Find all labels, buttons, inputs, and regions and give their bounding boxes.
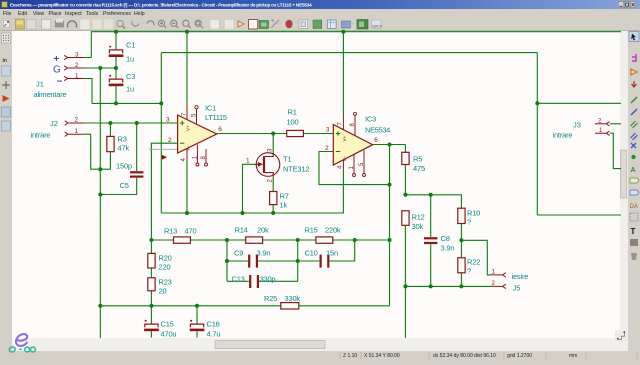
node C9 left <box>225 259 229 263</box>
capacitor C5 <box>130 171 143 178</box>
svg-text:1: 1 <box>75 128 79 135</box>
wire R13 R14 R15 row <box>151 239 389 241</box>
svg-text:J2: J2 <box>50 119 58 128</box>
svg-text:R12: R12 <box>412 213 425 222</box>
svg-text:R20: R20 <box>159 254 172 263</box>
watermark logo <box>9 334 36 353</box>
svg-text:?: ? <box>467 218 471 227</box>
wire V- row right <box>537 102 621 104</box>
node C8 top <box>429 193 433 197</box>
right toolbar <box>627 31 640 352</box>
wire V- riser <box>160 53 162 213</box>
svg-text:150p: 150p <box>116 162 132 171</box>
node V- bottom row <box>159 101 163 105</box>
resistor R15 <box>316 237 333 243</box>
svg-text:1u: 1u <box>126 85 134 94</box>
svg-text:3: 3 <box>166 117 170 124</box>
wire IC1 graphic gray stub <box>149 148 179 150</box>
wire V- drop to lower row <box>536 103 538 215</box>
svg-text:220: 220 <box>159 263 171 272</box>
node R12 bottom <box>403 284 407 288</box>
svg-text:2: 2 <box>325 145 329 152</box>
node IC3 output <box>388 143 392 147</box>
svg-text:R15: R15 <box>305 226 318 235</box>
node R25 left <box>98 304 102 308</box>
svg-text:4.7u: 4.7u <box>207 330 221 339</box>
svg-text:Eeschema — preamplificator cu: Eeschema — preamplificator cu corectie r… <box>10 2 312 7</box>
top toolbar <box>2 19 383 30</box>
svg-text:3: 3 <box>326 127 330 134</box>
wire IC3 output <box>373 144 406 146</box>
node C15 top <box>149 304 153 308</box>
wire R7 bottom <box>272 205 274 213</box>
capacitor C8 <box>424 237 437 244</box>
node C9 drop <box>225 238 229 242</box>
node C1 top <box>114 30 118 34</box>
resistor R14 <box>246 237 263 243</box>
canvas <box>12 31 620 338</box>
wire C13 row <box>227 280 298 282</box>
svg-text:R14: R14 <box>235 226 248 235</box>
svg-text:47k: 47k <box>118 144 130 153</box>
svg-text:C10: C10 <box>305 249 318 258</box>
wire node to J5 pin1 jog <box>461 240 490 275</box>
node riser mid <box>296 238 300 242</box>
svg-text:Tools: Tools <box>86 11 99 17</box>
svg-text:−: − <box>57 77 63 88</box>
title bar <box>0 0 640 9</box>
capacitor C3 <box>109 75 124 86</box>
left toolbar <box>0 31 12 352</box>
svg-text:T1: T1 <box>283 155 291 164</box>
wire R25 row <box>100 305 389 307</box>
wire T1 source to R7 <box>272 176 274 191</box>
svg-text:T: T <box>631 227 636 236</box>
svg-text:470: 470 <box>185 227 197 236</box>
wire R20 R23 middle <box>150 268 152 278</box>
svg-text:R22: R22 <box>467 258 480 267</box>
svg-text:Z 1.10: Z 1.10 <box>343 353 357 359</box>
resistor R10 <box>458 208 465 223</box>
svg-text:grid 1.2700: grid 1.2700 <box>507 353 532 359</box>
wire C16 column <box>196 306 198 338</box>
svg-text:15n: 15n <box>326 249 338 258</box>
svg-text:IC1: IC1 <box>205 104 216 113</box>
svg-text:NTE312: NTE312 <box>283 165 309 174</box>
wire J1 bottom row <box>92 102 161 104</box>
node feedback row <box>388 238 392 242</box>
svg-text:C5: C5 <box>120 181 129 190</box>
node IC3 V+ <box>341 30 345 34</box>
node T1 gate gnd <box>241 211 245 215</box>
node G row left <box>98 66 102 70</box>
node R7 gnd <box>271 211 275 215</box>
resistor R5 <box>402 152 409 164</box>
wire J3 pin2 <box>610 123 621 125</box>
wire R5 bottom <box>404 165 406 195</box>
wire J3 pin1 jog <box>610 133 621 168</box>
resistor R7 <box>270 192 277 205</box>
resistor R20 <box>148 253 155 268</box>
wire GND mid rail <box>161 170 343 214</box>
wire C10 row <box>298 240 355 261</box>
capacitor C15 <box>144 320 159 331</box>
svg-text:Inspect: Inspect <box>65 11 82 17</box>
svg-text:3.9n: 3.9n <box>257 249 271 258</box>
svg-text:C1: C1 <box>126 41 135 50</box>
svg-text:330k: 330k <box>285 294 301 303</box>
svg-text:3: 3 <box>75 52 79 59</box>
wire C8 column <box>430 195 432 287</box>
connector J3 <box>553 119 610 140</box>
svg-text:3.9n: 3.9n <box>441 244 455 253</box>
wire V+ rail top <box>91 32 621 58</box>
capacitor C10 <box>320 255 330 268</box>
svg-text:475: 475 <box>413 164 425 173</box>
wire C5 bottom <box>100 178 136 195</box>
svg-text:R1: R1 <box>288 108 297 117</box>
wire ground column from G row <box>99 68 101 338</box>
node T1 drain <box>271 132 275 136</box>
svg-text:220k: 220k <box>325 226 341 235</box>
svg-text:20k: 20k <box>257 226 269 235</box>
node C16 top <box>195 304 199 308</box>
svg-text:iesire: iesire <box>512 272 529 281</box>
svg-text:LT1115: LT1115 <box>205 113 227 122</box>
svg-text:BACK: BACK <box>373 25 383 29</box>
op-amp U IC1 LT1115 <box>178 105 217 167</box>
svg-text:V−: V− <box>186 145 191 151</box>
resistor R23 <box>148 278 155 291</box>
svg-text:File: File <box>3 11 11 17</box>
wire R10 bottom <box>460 224 462 241</box>
wire R3 bottom <box>100 152 110 170</box>
svg-text:20: 20 <box>159 287 167 296</box>
wire R20 top <box>150 240 152 253</box>
connector J5 <box>490 270 528 293</box>
wire IC3 pin7 supply <box>342 32 344 115</box>
svg-text:C3: C3 <box>126 72 135 81</box>
svg-text:+: + <box>54 54 60 65</box>
resistor R3 <box>107 136 114 151</box>
svg-text:R25: R25 <box>264 294 277 303</box>
resistor R22 <box>458 258 465 273</box>
wire T1 drain riser <box>272 134 274 154</box>
svg-text:1: 1 <box>246 158 250 165</box>
svg-text:IC3: IC3 <box>365 115 376 124</box>
node R3 bottom <box>98 167 102 171</box>
svg-text:6: 6 <box>374 137 378 144</box>
svg-text:R7: R7 <box>280 192 289 201</box>
capacitor C1 <box>109 46 124 57</box>
svg-text:1u: 1u <box>126 55 134 64</box>
svg-text:2: 2 <box>75 117 79 124</box>
status bar <box>0 351 640 360</box>
node R13 left <box>149 238 153 242</box>
svg-text:dx 52.34 dy 80.00 dist 96.10: dx 52.34 dy 80.00 dist 96.10 <box>433 353 496 359</box>
node IC1 pin4 gnd <box>185 211 189 215</box>
wire feedback vertical <box>389 145 391 306</box>
svg-text:V−: V− <box>342 155 347 161</box>
svg-text:C16: C16 <box>207 320 220 329</box>
resistor R25 <box>281 303 299 309</box>
capacitor C13 <box>249 275 259 288</box>
node C5 bottom <box>98 193 102 197</box>
no-connect arrow marker <box>162 155 167 160</box>
svg-text:Preferences: Preferences <box>103 11 131 17</box>
svg-text:mm: mm <box>569 353 577 359</box>
svg-text:intrare: intrare <box>553 130 573 139</box>
connector J1 <box>34 52 85 100</box>
node R5 R12 <box>403 193 407 197</box>
svg-text:C15: C15 <box>161 320 174 329</box>
wire J1 pin3 to rail <box>84 57 91 59</box>
wire IC1 pin4 to gnd rail <box>186 160 188 213</box>
node IC1 V+ <box>185 30 189 34</box>
svg-text:R13: R13 <box>164 227 177 236</box>
wire V- top rail <box>161 52 537 54</box>
svg-text:330p: 330p <box>260 275 276 284</box>
svg-text:NE5534: NE5534 <box>365 126 390 135</box>
svg-text:6: 6 <box>218 126 222 133</box>
svg-text:Place: Place <box>49 11 62 17</box>
svg-text:J5: J5 <box>513 284 521 293</box>
node R3 top <box>108 121 112 125</box>
node C10 riser top <box>353 238 357 242</box>
wire IC3 feedback loop <box>319 152 390 185</box>
node C8 bottom <box>429 284 433 288</box>
svg-text:J3: J3 <box>573 121 581 130</box>
node C9 right <box>296 259 300 263</box>
wire R3 top <box>109 123 111 136</box>
svg-text:R5: R5 <box>413 155 422 164</box>
svg-text:R23: R23 <box>159 278 172 287</box>
wire C3 column <box>115 68 117 103</box>
menu bar <box>3 11 145 17</box>
svg-text:100: 100 <box>287 118 299 127</box>
node R10 R22 <box>459 238 463 242</box>
node G row C1 <box>114 66 118 70</box>
svg-text:Edit: Edit <box>18 11 27 17</box>
wire R12 bottom <box>404 225 406 338</box>
resistor R12 <box>402 211 409 226</box>
op-amp U IC3 NE5534 <box>333 112 372 176</box>
wire V- right drop <box>536 53 538 104</box>
wire lower V- row right <box>537 214 621 216</box>
wire C9 C13 left drop <box>226 240 228 281</box>
svg-text:30k: 30k <box>412 222 424 231</box>
svg-text:V+: V+ <box>342 135 347 141</box>
wire output gnd row to J5 pin2 <box>405 285 492 287</box>
wire R23 bottom <box>150 291 152 306</box>
svg-text:C9: C9 <box>234 249 243 258</box>
wire IC1 output row <box>217 133 287 135</box>
svg-text:intrare: intrare <box>31 131 51 140</box>
svg-text:J1: J1 <box>36 80 44 89</box>
svg-text:2: 2 <box>75 62 79 69</box>
node C3 bottom <box>114 101 118 105</box>
svg-text:X 51.34 Y 80.00: X 51.34 Y 80.00 <box>364 353 400 359</box>
wire IC1 pin7 supply <box>186 32 188 105</box>
node C5 top <box>135 121 139 125</box>
svg-text:2: 2 <box>168 137 172 144</box>
wire C15 column <box>150 306 152 338</box>
wire J1 pin2 G row <box>84 67 116 69</box>
svg-text:470u: 470u <box>161 330 177 339</box>
connector J2 <box>31 117 85 140</box>
svg-text:Help: Help <box>134 11 145 17</box>
node R22 bottom <box>459 284 463 288</box>
wire C9 row <box>227 260 298 262</box>
svg-text:V+: V+ <box>186 125 191 131</box>
wire C1 column <box>115 32 117 68</box>
transistor Q T1 NTE312 <box>256 153 280 177</box>
svg-text:View: View <box>33 11 44 17</box>
capacitor C9 <box>248 255 258 268</box>
svg-text:A: A <box>631 167 636 174</box>
svg-text:alimentare: alimentare <box>34 90 67 99</box>
svg-text:in: in <box>3 58 7 64</box>
wire R1 to IC3 input <box>303 133 333 135</box>
resistor R1 <box>287 130 304 136</box>
wire J2 pin1 down <box>84 134 100 169</box>
wire IC1 feedback to R13 node <box>151 143 177 240</box>
svg-text:C8: C8 <box>441 234 450 243</box>
svg-text:?: ? <box>467 267 471 276</box>
wire R5 top <box>404 145 406 153</box>
svg-text:G: G <box>53 65 61 76</box>
wire J2 signal row <box>84 122 178 124</box>
svg-text:1k: 1k <box>280 201 288 210</box>
node feedback tap <box>388 183 392 187</box>
scrollbars <box>620 31 627 351</box>
wire C5 top <box>136 123 138 171</box>
svg-text:R3: R3 <box>118 135 127 144</box>
node V- right <box>535 101 539 105</box>
resistor R13 <box>174 237 191 243</box>
svg-text:1: 1 <box>75 73 79 80</box>
wire C9 C13 right riser <box>297 240 299 281</box>
wire R12 C8 R10 top row <box>405 195 461 208</box>
wire R22 column <box>460 240 462 286</box>
wire T1 gate to gnd <box>243 164 257 213</box>
svg-text:R10: R10 <box>467 209 480 218</box>
svg-text:C13: C13 <box>232 275 245 284</box>
capacitor C16 <box>190 320 205 331</box>
svg-text:DA: DA <box>630 204 638 210</box>
wire J1 pin1 to bottom row <box>84 79 92 104</box>
